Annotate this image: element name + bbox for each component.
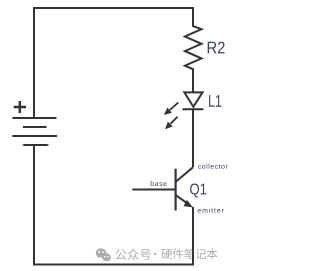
transistor Q1 emitter diagonal with arrow [176,195,187,203]
wire: top from battery + up and across to R2 [34,8,193,118]
transistor Q1 collector diagonal [176,167,193,182]
label collector [198,164,228,169]
wire: LED to collector [192,109,194,167]
battery BT1 plus sign [14,101,26,113]
wire: battery negative down and along bottom to emitter [34,145,193,265]
LED arrow 1 [164,103,178,116]
watermark separator dot [154,253,156,255]
transistor Q1 base line [132,189,175,191]
LED L1 cathode bar [182,108,203,110]
transistor Q1 bar [175,169,177,211]
LED arrow 2 [165,117,178,130]
label emitter [198,208,224,213]
label L1 [209,95,221,107]
label R2 [208,42,225,54]
LED L1 triangle [184,92,202,106]
battery BT1 plates [12,118,57,145]
watermark text 公众号 · 硬件笔记本 [115,249,217,260]
label base [151,181,167,186]
resistor R2 [185,26,202,93]
label Q1 [190,184,206,198]
battery bottom plate arrow tips [22,144,50,147]
watermark wechat logo [96,248,111,261]
